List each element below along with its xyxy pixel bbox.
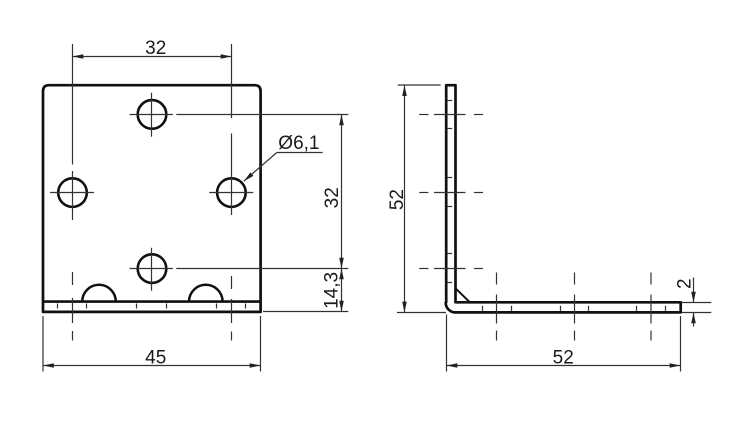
hole right [217,178,246,207]
angle profile outline [446,85,681,312]
bottom leg hole-edge ticks [483,306,666,311]
right column centerline [231,44,233,341]
bend diagonal [456,288,470,302]
svg-text:32: 32 [145,38,166,59]
hole bottom [138,254,167,283]
dimension 52 left vertical [387,85,446,313]
side horizontal centerline top hole [419,114,483,116]
left column centerline [72,44,74,341]
hole left [58,178,87,207]
svg-text:Ø6,1: Ø6,1 [278,133,319,154]
vertical leg hole-edge ticks [447,101,452,283]
svg-text:14,3: 14,3 [322,272,343,309]
svg-text:52: 52 [387,189,408,210]
svg-text:45: 45 [145,348,166,369]
hole right horizontal centerline [209,192,253,194]
bend line (front) [43,300,261,303]
dimension 32 top [73,38,232,59]
projected hole arc right [189,285,223,302]
side horizontal centerline middle hole [419,192,483,194]
projected hole arc left [82,285,116,302]
svg-text:2: 2 [675,278,696,289]
svg-text:52: 52 [553,348,574,369]
dimension 32 right vertical [322,115,343,269]
leader O6,1 [244,133,323,181]
svg-text:32: 32 [322,187,343,208]
plate outline [43,85,261,312]
dimension 45 bottom [43,316,261,372]
dimension 14,3 right vertical [263,269,348,312]
bottom leg vertical centerline 1 [496,273,498,341]
bottom leg vertical centerline 2 [574,273,576,341]
hole bottom centerlines [130,248,349,291]
bottom leg vertical centerline 3 [650,273,652,341]
hole left horizontal centerline [50,192,94,194]
bend band hole-edge ticks (front) [58,304,246,309]
hole top centerlines [130,93,349,137]
side horizontal centerline bottom hole [419,268,483,270]
dimension 2 right [675,278,712,327]
dimension 52 bottom horizontal [447,315,681,372]
hole top [138,100,167,129]
